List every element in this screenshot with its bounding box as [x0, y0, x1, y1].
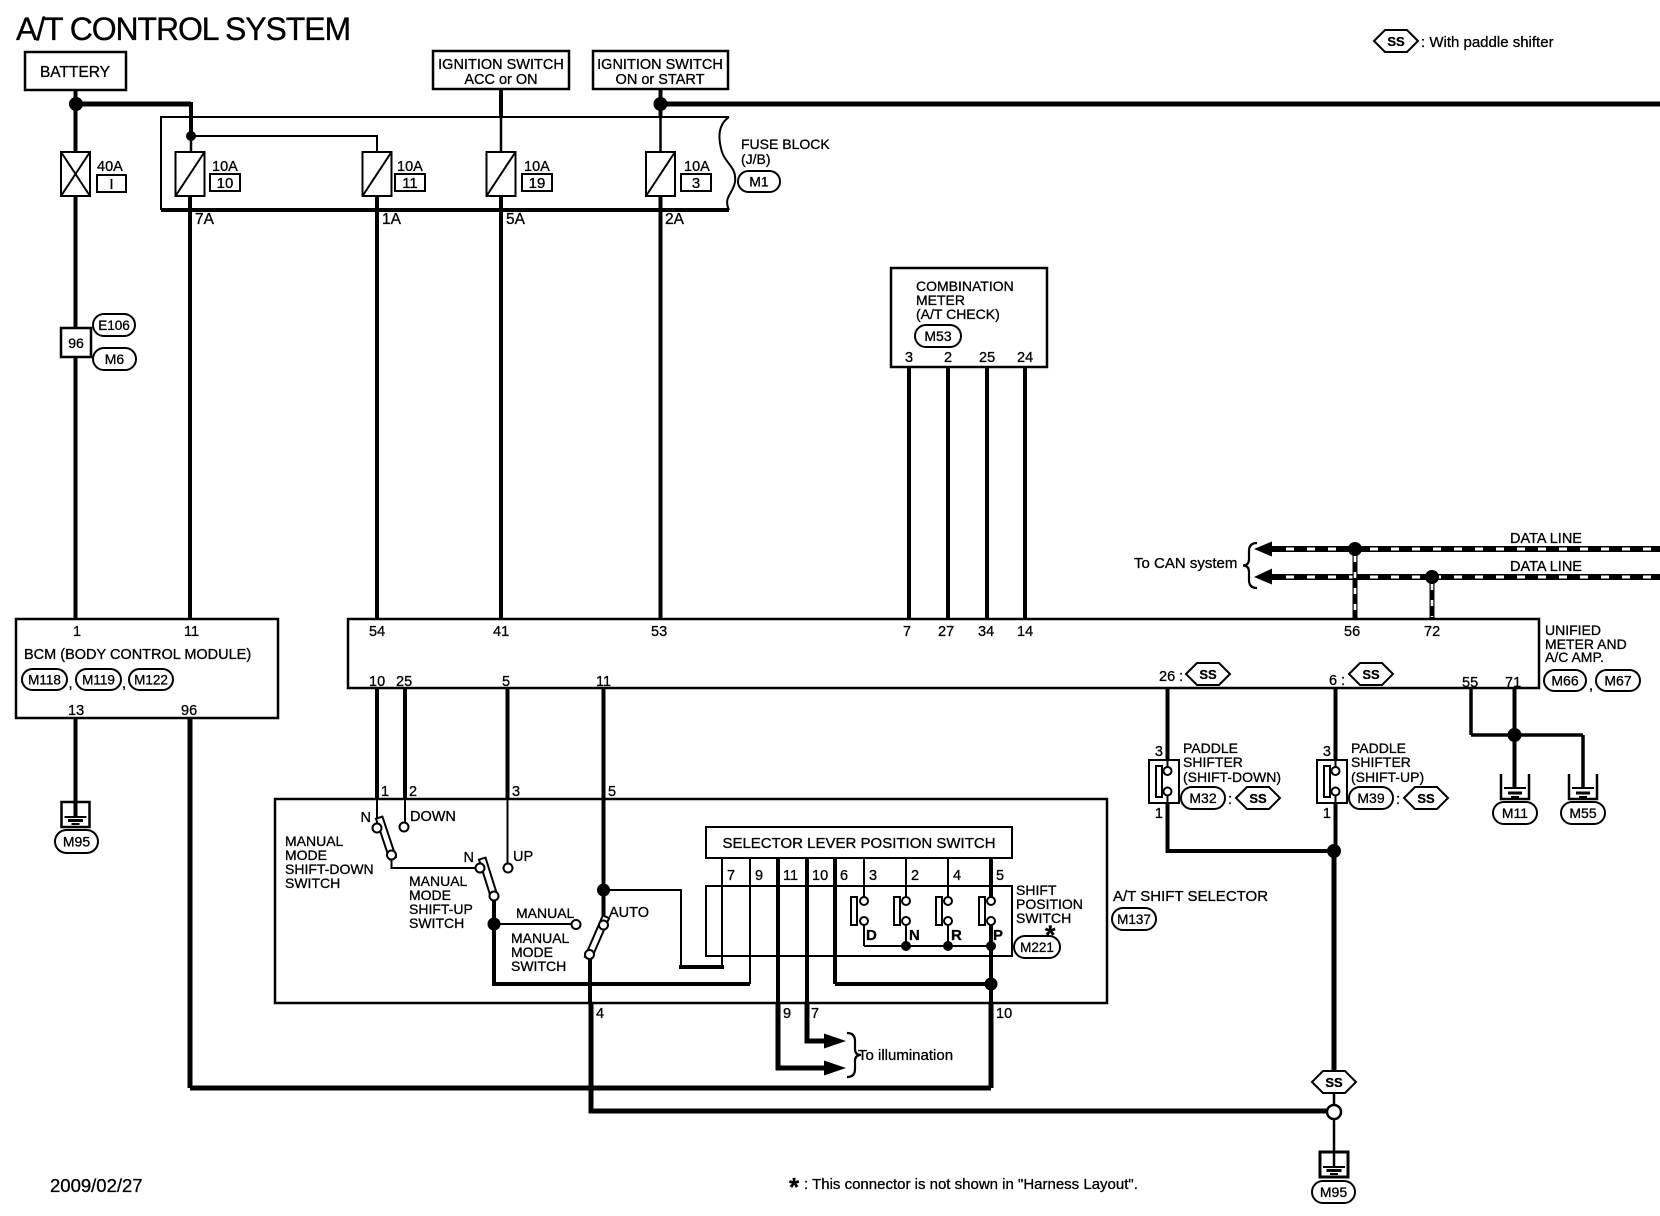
wire splice to ground M95	[1333, 1119, 1336, 1167]
data line lower to CAN	[1254, 569, 1272, 585]
svg-text:(A/T CHECK): (A/T CHECK)	[916, 306, 1000, 322]
node fuse block feed junction	[186, 131, 196, 141]
wire shift-up to manual mode junction	[492, 900, 496, 924]
svg-text:: With paddle shifter: : With paddle shifter	[1421, 34, 1554, 51]
wire P contact down	[989, 925, 993, 1003]
svg-text:M221: M221	[1020, 940, 1054, 955]
wire ground bus M11 M55	[1471, 733, 1583, 737]
svg-text:SWITCH: SWITCH	[1016, 910, 1071, 926]
svg-text:R: R	[951, 927, 962, 944]
svg-text:24: 24	[1017, 350, 1033, 366]
SS connector bottom	[1312, 1071, 1356, 1093]
svg-text:6: 6	[840, 868, 848, 884]
svg-text:13: 13	[68, 703, 84, 719]
svg-text:D: D	[866, 927, 877, 944]
node battery junction	[69, 97, 83, 111]
svg-text:3: 3	[905, 350, 913, 366]
svg-text:IGNITION SWITCH: IGNITION SWITCH	[597, 57, 723, 73]
svg-text::: :	[1228, 792, 1232, 808]
combination meter M53	[891, 268, 1047, 367]
svg-text:SS: SS	[1249, 791, 1267, 806]
wire ignition ON to fuse 3	[659, 89, 663, 118]
svg-text:96: 96	[68, 335, 84, 351]
node N rail	[901, 941, 911, 951]
wire unified 5 wire to UP contact	[507, 799, 509, 863]
ignition switch ON or START	[593, 51, 728, 89]
svg-text:,: ,	[122, 676, 126, 692]
svg-text:MANUAL: MANUAL	[516, 905, 575, 921]
svg-text:M11: M11	[1502, 805, 1528, 821]
svg-text:SS: SS	[1325, 1075, 1343, 1090]
svg-text:M39: M39	[1357, 790, 1384, 806]
svg-text:AUTO: AUTO	[609, 905, 649, 921]
splice circle	[1327, 1105, 1341, 1119]
battery B1	[25, 52, 126, 90]
svg-text:SS: SS	[1199, 667, 1217, 682]
wire auto junction to pin 7 path	[604, 890, 682, 965]
svg-text:SWITCH: SWITCH	[285, 875, 340, 891]
svg-text:7: 7	[727, 868, 735, 884]
manual mode shift-up switch	[479, 858, 498, 900]
wire common rail D N R P	[864, 945, 991, 947]
svg-text:5: 5	[502, 674, 510, 690]
svg-text:11: 11	[596, 674, 611, 690]
BCM body control module M118 M119 M122	[16, 619, 278, 718]
svg-text:41: 41	[493, 624, 509, 640]
svg-text:4: 4	[596, 1006, 604, 1022]
svg-text:ON or START: ON or START	[616, 72, 705, 88]
svg-text:9: 9	[755, 868, 763, 884]
svg-text:ACC or ON: ACC or ON	[464, 72, 537, 88]
wire connector 96 to BCM pin 1	[74, 357, 78, 619]
svg-text:I: I	[109, 176, 113, 193]
svg-text:M137: M137	[1117, 912, 1151, 927]
svg-text:4: 4	[953, 868, 961, 884]
svg-text:To CAN system: To CAN system	[1134, 555, 1237, 572]
svg-text:M32: M32	[1189, 790, 1216, 806]
svg-text:P: P	[993, 927, 1003, 944]
svg-text:DOWN: DOWN	[410, 809, 456, 825]
wire stub 7 through inner box	[721, 886, 723, 956]
A/T shift selector box M137	[275, 799, 1107, 1003]
svg-text:10: 10	[217, 175, 234, 192]
contact switch R	[936, 897, 942, 925]
node ignition ON junction	[654, 97, 668, 111]
svg-text:3: 3	[692, 175, 700, 192]
svg-text:M55: M55	[1569, 805, 1596, 821]
svg-text:UP: UP	[513, 849, 533, 865]
fuse 10A #11	[363, 152, 392, 196]
wire unified 71 to ground	[1513, 688, 1517, 735]
ground M11	[1501, 774, 1529, 799]
selector lever position switch header	[706, 827, 1012, 858]
svg-text:N: N	[909, 927, 920, 944]
node manual mode junction	[488, 918, 501, 931]
svg-text:5A: 5A	[506, 211, 526, 228]
svg-text:SWITCH: SWITCH	[511, 958, 566, 974]
svg-text:54: 54	[369, 624, 385, 640]
svg-text:5: 5	[996, 868, 1004, 884]
wire main bus to right edge	[661, 102, 1660, 107]
svg-text:11: 11	[184, 624, 199, 640]
node ground junction	[1508, 728, 1522, 742]
svg-text:SS: SS	[1417, 791, 1435, 806]
svg-text:M95: M95	[63, 834, 90, 850]
svg-text:2A: 2A	[665, 211, 685, 228]
svg-text::: :	[1396, 792, 1400, 808]
svg-text:DATA LINE: DATA LINE	[1510, 559, 1582, 575]
svg-text:A/C AMP.: A/C AMP.	[1545, 649, 1604, 665]
ground M55	[1569, 774, 1597, 799]
wire BCM 13 to ground M95	[74, 718, 78, 817]
contact switch P	[979, 897, 985, 925]
wire unified 11 to selector pin 5	[602, 688, 606, 799]
wire fuse 1A to unified pin 54	[375, 196, 379, 619]
svg-text:BCM (BODY CONTROL MODULE): BCM (BODY CONTROL MODULE)	[24, 647, 251, 663]
svg-text:DATA LINE: DATA LINE	[1510, 531, 1582, 547]
svg-text:(SHIFT-UP): (SHIFT-UP)	[1351, 769, 1424, 785]
svg-text:2: 2	[409, 784, 417, 800]
svg-text:SS: SS	[1362, 667, 1380, 682]
svg-text:11: 11	[783, 868, 798, 884]
wire junction to MANUAL contact	[494, 923, 571, 925]
node auto junction	[597, 884, 610, 897]
fuse block J/B outline M1	[161, 117, 729, 210]
svg-text:M53: M53	[924, 328, 951, 344]
svg-text:M118: M118	[28, 673, 61, 688]
node R rail	[943, 941, 953, 951]
legend SS symbol: with paddle shifter	[1374, 30, 1418, 52]
svg-text:1: 1	[1155, 806, 1163, 822]
svg-text:7A: 7A	[195, 211, 215, 228]
wire data line to unified 56 (shielded)	[1353, 549, 1358, 619]
wire data line to unified 72 (shielded)	[1430, 577, 1435, 619]
wire meter 25 to unified 34	[985, 367, 989, 619]
node data line junction 72	[1425, 570, 1439, 584]
svg-text:M1: M1	[749, 174, 769, 190]
svg-text:1: 1	[1323, 806, 1331, 822]
svg-text:10A: 10A	[212, 159, 238, 175]
wire unified 26 to paddle shifter down	[1166, 688, 1170, 760]
svg-text:3: 3	[869, 868, 877, 884]
svg-text:10: 10	[812, 868, 828, 884]
wire meter 24 to unified 14	[1023, 367, 1027, 619]
svg-text:25: 25	[979, 350, 995, 366]
contact switch D	[851, 897, 857, 925]
svg-text:56: 56	[1344, 624, 1360, 640]
svg-text:SS: SS	[1387, 34, 1405, 49]
svg-text:,: ,	[1589, 678, 1593, 694]
svg-text:11: 11	[402, 175, 418, 192]
wire BCM 96 to shift selector pin 10	[190, 1086, 991, 1091]
wire manual junction down to pin 9 path	[494, 924, 750, 984]
svg-text:,: ,	[69, 676, 73, 692]
wire battery bus to fuse block	[76, 102, 191, 107]
ground M95 right	[1320, 1152, 1348, 1177]
wire pin 7 stub riser	[721, 858, 723, 967]
wire shift-down to shift-up switch	[392, 859, 481, 868]
svg-text:10A: 10A	[684, 159, 710, 175]
svg-text:E106: E106	[98, 318, 130, 333]
fuse 40A #1	[61, 152, 90, 196]
svg-text:N: N	[464, 850, 474, 866]
svg-text:*: *	[789, 1172, 800, 1202]
wire meter 2 to unified 27	[946, 367, 950, 619]
wire ignition ACC to fuse 19	[499, 89, 503, 118]
unified meter and A/C amp M66 M67	[348, 619, 1539, 688]
svg-text:27: 27	[938, 624, 954, 640]
wire battery to connector 96	[74, 197, 78, 328]
wire unified 5 to selector pin 3	[506, 688, 510, 799]
node paddle ground junction	[1327, 844, 1341, 858]
svg-text:(J/B): (J/B)	[741, 151, 771, 167]
svg-text:7: 7	[903, 624, 911, 640]
svg-text:2: 2	[911, 868, 919, 884]
svg-text:34: 34	[978, 624, 994, 640]
svg-text:1A: 1A	[382, 211, 402, 228]
svg-text:72: 72	[1424, 624, 1440, 640]
wire meter 3 to unified 7	[907, 367, 911, 619]
svg-text:M122: M122	[134, 673, 168, 688]
svg-text:7: 7	[811, 1006, 819, 1022]
wire paddle up pin 1	[1334, 803, 1338, 851]
wire unified 6 to paddle shifter up	[1334, 688, 1338, 760]
svg-text:40A: 40A	[97, 159, 123, 175]
selector lever position switch stubs	[721, 858, 723, 886]
shift position switch inner box	[706, 886, 1012, 956]
svg-text:6 :: 6 :	[1329, 673, 1345, 689]
wire unified 25 to selector pin 2	[403, 688, 407, 799]
svg-text:2: 2	[944, 350, 952, 366]
svg-text:M67: M67	[1604, 673, 1631, 689]
contact switch N	[894, 897, 900, 925]
svg-text:BATTERY: BATTERY	[40, 64, 110, 81]
svg-text:3: 3	[1323, 744, 1331, 760]
svg-text:SWITCH: SWITCH	[409, 915, 464, 931]
wire stubs below inner box	[721, 956, 723, 967]
svg-text:96: 96	[181, 703, 197, 719]
svg-text:1: 1	[381, 784, 389, 800]
wire pin 9 stub riser	[749, 858, 751, 984]
svg-text:M6: M6	[105, 351, 125, 367]
svg-text:SELECTOR LEVER POSITION SWITCH: SELECTOR LEVER POSITION SWITCH	[722, 835, 995, 852]
svg-text:N: N	[361, 810, 371, 826]
svg-text:M66: M66	[1551, 673, 1578, 689]
wire fuse 5A to unified pin 41	[499, 196, 503, 619]
svg-text:SHIFTER: SHIFTER	[1351, 754, 1411, 770]
connector 96 E106 M6	[61, 328, 91, 357]
wire fuse 2A to unified pin 53	[659, 196, 663, 619]
node P junction at 984	[985, 978, 998, 991]
svg-text:10A: 10A	[524, 159, 550, 175]
svg-text:53: 53	[651, 624, 667, 640]
svg-text:26 :: 26 :	[1159, 669, 1183, 685]
wire feed fuse 10	[190, 136, 193, 152]
svg-text:IGNITION SWITCH: IGNITION SWITCH	[438, 57, 564, 73]
wire selector pin 5 to auto junction	[602, 799, 606, 921]
wire unified 55 to ground	[1469, 688, 1473, 735]
svg-text:2009/02/27: 2009/02/27	[50, 1175, 143, 1196]
wire paddle down pin 1	[1168, 803, 1335, 851]
wire fuse 7A to BCM pin 11	[188, 196, 192, 619]
ground M95 left	[62, 802, 90, 827]
label to illumination	[847, 1033, 861, 1077]
wire BCM 96 down	[188, 718, 193, 1088]
svg-text:3: 3	[1155, 744, 1163, 760]
manual mode shift-down switch	[376, 799, 378, 824]
fuse 10A #3	[646, 152, 675, 196]
svg-text:25: 25	[396, 674, 412, 690]
ignition switch ACC or ON	[433, 51, 569, 89]
svg-text:: This connector is not shown: : This connector is not shown in "Harnes…	[804, 1176, 1138, 1193]
node P rail	[986, 941, 996, 951]
wire auto switch to selector pin 4	[588, 958, 592, 1003]
svg-text:3: 3	[512, 784, 520, 800]
svg-text:14: 14	[1017, 624, 1033, 640]
svg-text:10: 10	[369, 674, 385, 690]
wire unified 10 to selector pin 1	[375, 688, 379, 799]
svg-text:M119: M119	[82, 673, 115, 688]
svg-text:FUSE BLOCK: FUSE BLOCK	[741, 136, 830, 152]
fuse 10A #10	[176, 152, 205, 196]
wire SS to splice circle	[1333, 1093, 1336, 1105]
fuse 10A #19	[487, 152, 516, 196]
svg-text:5: 5	[608, 784, 616, 800]
svg-text:SHIFTER: SHIFTER	[1183, 754, 1243, 770]
svg-text:10: 10	[996, 1006, 1012, 1022]
svg-text:A/T CONTROL SYSTEM: A/T CONTROL SYSTEM	[16, 11, 350, 47]
svg-text:To illumination: To illumination	[858, 1047, 953, 1064]
svg-text:10A: 10A	[397, 159, 423, 175]
svg-text:M95: M95	[1320, 1184, 1347, 1200]
node data line junction 56	[1348, 542, 1362, 556]
wire battery down to fuse 40A	[74, 90, 78, 152]
wire branch to fuse 11	[191, 136, 377, 152]
svg-text:19: 19	[529, 175, 546, 192]
wire paddle junction to SS below	[1332, 851, 1337, 1071]
data line upper to CAN	[1254, 542, 1272, 557]
wire stub 6 horizontal to P	[835, 982, 991, 986]
svg-text:A/T SHIFT SELECTOR: A/T SHIFT SELECTOR	[1113, 888, 1268, 905]
svg-text:1: 1	[73, 624, 81, 640]
svg-text:9: 9	[783, 1006, 791, 1022]
svg-text:(SHIFT-DOWN): (SHIFT-DOWN)	[1183, 769, 1281, 785]
